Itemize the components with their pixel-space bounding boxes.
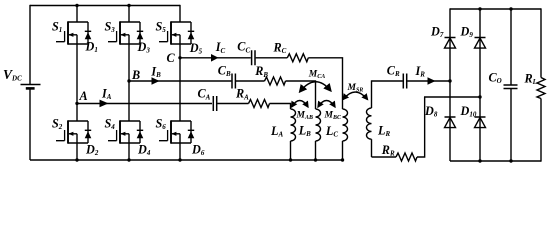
node A — [75, 89, 87, 105]
diode D7 — [430, 25, 456, 49]
current arrow IB — [150, 65, 161, 85]
wire phase A line — [77, 103, 212, 105]
wire leg1 midpoint — [76, 44, 78, 121]
current arrow IR — [415, 64, 436, 85]
junction bottom rail leg3 — [178, 158, 181, 161]
mosfet S6 — [156, 117, 195, 144]
capacitor CA — [198, 87, 217, 111]
wire B line mid — [236, 80, 265, 82]
svg-text:D8: D8 — [424, 104, 438, 119]
junction rectifier bottom D10 — [478, 159, 481, 162]
wire receiver left side — [371, 80, 373, 108]
svg-text:CA: CA — [198, 87, 211, 102]
svg-text:D6: D6 — [191, 143, 205, 158]
svg-text:RC: RC — [273, 40, 287, 55]
inductor LC — [325, 109, 348, 141]
wire load branch bottom — [540, 99, 542, 162]
wire receiver bottom right — [417, 97, 425, 157]
svg-text:D3: D3 — [137, 40, 151, 55]
junction bottom rail leg1 — [75, 158, 78, 161]
wire load branch top — [540, 8, 542, 77]
wire receiver top line — [372, 80, 403, 82]
svg-text:LB: LB — [298, 123, 311, 138]
junction bottom rail LC — [341, 158, 344, 161]
junction bottom rail LA — [289, 158, 292, 161]
inductor LR — [367, 108, 391, 139]
wire A line to coil — [270, 103, 292, 109]
resistor RL — [524, 71, 546, 98]
svg-text:D7: D7 — [430, 25, 444, 40]
wire bottom return rail — [30, 159, 343, 161]
wire receiver bottom line — [372, 156, 397, 158]
svg-text:S2: S2 — [52, 117, 63, 132]
svg-text:IB: IB — [150, 65, 161, 80]
wire receiver top line right — [407, 80, 450, 82]
diode D8 — [424, 104, 456, 128]
capacitor CC — [237, 40, 255, 66]
resistor RC — [273, 40, 309, 62]
svg-text:D4: D4 — [137, 143, 151, 158]
wire leg2 midpoint — [128, 44, 130, 121]
svg-text:CC: CC — [237, 40, 250, 55]
svg-text:D9: D9 — [460, 25, 474, 40]
wire battery positive lead — [29, 5, 31, 85]
wire leg3 drain — [179, 5, 181, 22]
svg-text:VDC: VDC — [3, 67, 22, 83]
wire leg2 drain — [128, 6, 130, 23]
inductor LB — [298, 109, 321, 141]
svg-text:D1: D1 — [85, 40, 98, 55]
wire leg2 source to rail — [128, 143, 130, 160]
svg-text:S3: S3 — [105, 20, 116, 35]
svg-text:MAB: MAB — [296, 111, 313, 122]
node C — [167, 51, 182, 65]
junction rectifier ac left — [448, 79, 451, 82]
wire output cap branch bottom — [510, 89, 512, 162]
svg-text:LR: LR — [377, 124, 390, 139]
current arrow IA — [100, 87, 112, 108]
wire battery negative lead — [29, 88, 31, 160]
junction bottom rail LB — [314, 158, 317, 161]
svg-text:B: B — [131, 68, 140, 82]
junction top rail leg2 — [127, 4, 130, 7]
junction rectifier top CO — [509, 7, 512, 10]
mosfet S1 — [52, 20, 91, 45]
svg-text:CB: CB — [218, 63, 231, 78]
junction bottom rail leg2 — [127, 158, 130, 161]
wire leg1 source to rail — [76, 143, 78, 160]
junction rectifier ac right — [478, 95, 481, 98]
svg-text:RB: RB — [254, 64, 268, 79]
current arrow IC — [211, 40, 226, 61]
wire leg1 drain — [76, 6, 78, 23]
svg-text:IR: IR — [415, 64, 426, 79]
wire LB to rail — [315, 141, 317, 160]
svg-text:S5: S5 — [156, 20, 167, 35]
mutual coupling MSR — [343, 83, 368, 100]
inductor LA — [270, 109, 296, 141]
junction rectifier top D9 — [478, 7, 481, 10]
mosfet S2 — [52, 117, 91, 144]
mutual coupling MAB — [292, 101, 313, 122]
svg-text:MCA: MCA — [308, 69, 325, 80]
diode D9 — [460, 25, 486, 49]
mosfet S4 — [105, 117, 144, 144]
junction top rail leg1 — [75, 4, 78, 7]
wire top DC rail — [30, 5, 180, 7]
wire rectifier return line — [424, 96, 480, 98]
wire LA to rail — [290, 141, 292, 160]
svg-text:MBC: MBC — [324, 111, 342, 122]
svg-text:MSR: MSR — [347, 83, 364, 94]
resistor RB — [254, 64, 285, 85]
wire output cap branch top — [510, 9, 512, 85]
svg-text:IA: IA — [101, 87, 112, 102]
svg-text:CR: CR — [387, 64, 400, 79]
resistor RR — [381, 143, 417, 161]
svg-text:LA: LA — [270, 124, 283, 139]
svg-text:RR: RR — [381, 143, 395, 158]
wire LC to rail — [342, 141, 344, 160]
svg-text:S4: S4 — [105, 117, 116, 132]
svg-text:RL: RL — [524, 71, 537, 86]
svg-text:A: A — [79, 89, 88, 103]
svg-text:IC: IC — [215, 40, 226, 55]
wire leg3 midpoint — [179, 44, 181, 121]
wire C line mid — [256, 57, 288, 59]
wire rectifier right leg — [479, 9, 481, 161]
svg-text:S1: S1 — [52, 20, 62, 35]
mosfet S5 — [156, 20, 195, 45]
wire leg3 source to rail — [179, 143, 181, 160]
diode D10 — [460, 104, 486, 128]
svg-text:D10: D10 — [460, 104, 477, 119]
svg-text:C: C — [167, 51, 176, 65]
wire phase C line — [180, 57, 251, 59]
wire B line to coil — [286, 80, 317, 109]
mutual coupling MBC — [318, 101, 342, 122]
wire A line mid — [217, 103, 248, 105]
battery VDC — [3, 67, 41, 89]
svg-text:CO: CO — [489, 71, 502, 86]
mosfet S3 — [105, 20, 144, 45]
mutual coupling MCA — [300, 69, 331, 91]
resistor RA — [235, 87, 270, 108]
junction rectifier bottom CO — [509, 159, 512, 162]
svg-text:LC: LC — [325, 124, 338, 139]
svg-text:S6: S6 — [156, 117, 167, 132]
wire rectifier bottom rail — [450, 160, 541, 162]
wire C line to coil — [308, 57, 343, 109]
wire rectifier left leg — [449, 8, 451, 161]
wire phase B line — [129, 80, 231, 82]
wire rectifier top rail — [450, 8, 541, 10]
node B — [127, 68, 140, 83]
capacitor CO — [489, 71, 518, 89]
capacitor CR — [387, 64, 407, 89]
capacitor CB — [218, 63, 236, 88]
svg-text:RA: RA — [235, 87, 249, 102]
svg-text:D5: D5 — [189, 41, 203, 56]
svg-text:D2: D2 — [85, 143, 99, 158]
wire LR to bottom — [371, 139, 373, 157]
